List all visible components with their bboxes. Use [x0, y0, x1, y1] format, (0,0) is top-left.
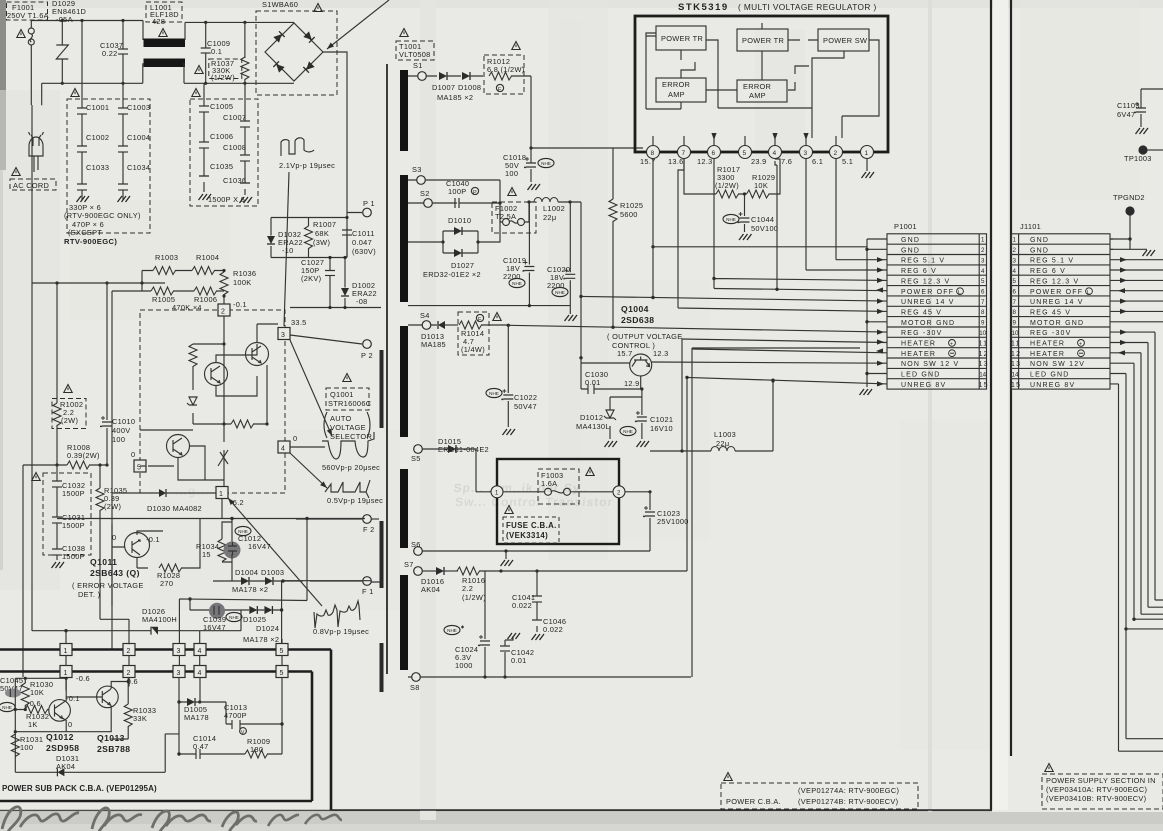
svg-text:MOTOR GND: MOTOR GND	[1030, 320, 1084, 327]
wire caps2 top	[204, 83, 245, 99]
IC STK5319 outline	[635, 16, 888, 152]
svg-text:Q1001: Q1001	[330, 390, 354, 399]
STK internal wiring mid	[718, 23, 812, 108]
waveform 0.5Vp-p	[325, 480, 370, 498]
svg-text:P1001: P1001	[894, 222, 917, 231]
ground cap bank1 left	[77, 196, 90, 202]
svg-text:25V1000: 25V1000	[657, 517, 689, 526]
wire gnd bus left of P1001	[867, 239, 887, 387]
wire J row4 out	[1110, 269, 1163, 271]
svg-text:D1012: D1012	[580, 413, 603, 422]
wire POWER OFF row6	[714, 161, 887, 291]
fuse F1001 symbol	[28, 28, 34, 34]
svg-text:LED GND: LED GND	[1030, 372, 1070, 379]
wire heater rail corner	[681, 337, 684, 339]
svg-text:REG 5.1 V: REG 5.1 V	[1030, 258, 1074, 265]
wires R100x rows	[112, 271, 224, 650]
bus1 box 1	[60, 644, 72, 656]
ground C1022	[503, 429, 516, 435]
svg-text:10: 10	[979, 330, 986, 337]
svg-text:400V: 400V	[112, 426, 130, 435]
svg-text:-0.1: -0.1	[233, 300, 247, 309]
diode D1024	[264, 606, 272, 614]
fuse CBA pin 1	[491, 486, 503, 498]
svg-text:6.1: 6.1	[812, 157, 823, 166]
bottom long line	[331, 809, 992, 811]
block ERROR AMP 1	[656, 78, 706, 102]
wire top node rail	[271, 218, 347, 258]
resistor R1002	[52, 399, 86, 429]
T1001 label box	[396, 41, 434, 60]
svg-text:D1004: D1004	[235, 568, 258, 577]
wire J row5 out	[1110, 279, 1163, 281]
diagonal pointer to bridge	[327, 0, 389, 49]
fuse CBA label	[503, 517, 559, 543]
svg-text:0.01: 0.01	[585, 378, 601, 387]
fuse F1001 box	[7, 2, 48, 20]
terminal S8	[412, 673, 421, 682]
svg-text:C1006: C1006	[210, 132, 233, 141]
pointer pin1 to waveform 0.8	[228, 498, 322, 606]
svg-text:0.5Vp-p 19μsec: 0.5Vp-p 19μsec	[327, 496, 383, 505]
waveform 0.8Vp-p	[314, 601, 360, 628]
svg-text:L: L	[1087, 290, 1090, 296]
svg-text:P 1: P 1	[363, 199, 375, 208]
wire bus1 entries from above	[66, 678, 282, 725]
wire F2 line	[57, 518, 365, 520]
svg-text:(RTV-900EGC ONLY): (RTV-900EGC ONLY)	[64, 211, 141, 220]
svg-text:TP1003: TP1003	[1124, 154, 1152, 163]
control block internal wires	[140, 316, 278, 498]
svg-text:7: 7	[981, 299, 985, 306]
ground C1044	[739, 234, 752, 240]
svg-text:4: 4	[981, 268, 985, 275]
svg-text:-10: -10	[282, 246, 294, 255]
wire REG12.3 row5	[714, 159, 887, 288]
ground pin1	[866, 159, 868, 171]
svg-text:4: 4	[198, 670, 202, 677]
diode D1005	[187, 698, 195, 706]
pin 7	[678, 146, 691, 159]
capacitor C1022	[486, 388, 502, 397]
resistor R1012	[484, 55, 524, 94]
wire J row14 wrap	[1110, 374, 1163, 739]
svg-text:F 2: F 2	[363, 525, 375, 534]
svg-text:FUSE C.B.A.: FUSE C.B.A.	[506, 521, 557, 530]
svg-text:(3W): (3W)	[313, 238, 330, 247]
svg-text:14: 14	[1012, 371, 1019, 378]
svg-text:2.1Vp-p 19μsec: 2.1Vp-p 19μsec	[279, 161, 335, 170]
svg-text:68K: 68K	[315, 229, 329, 238]
terminal P2	[363, 340, 372, 349]
svg-text:(VEP03410A: RTV-900EGC): (VEP03410A: RTV-900EGC)	[1046, 785, 1147, 794]
svg-text:9: 9	[1013, 320, 1017, 327]
ground C1020 rail	[565, 315, 578, 321]
svg-text:0.39(2W): 0.39(2W)	[67, 451, 100, 460]
waveform 2.1Vp-p	[281, 138, 314, 156]
svg-text:1000: 1000	[455, 661, 473, 670]
svg-text:C1035: C1035	[210, 162, 233, 171]
svg-text:REG 12.3 V: REG 12.3 V	[1030, 278, 1079, 285]
svg-text:3: 3	[177, 648, 181, 655]
svg-text:GND: GND	[1030, 237, 1049, 244]
transformer core line	[386, 64, 388, 674]
svg-text:L: L	[958, 290, 961, 296]
svg-text:(1/4W): (1/4W)	[461, 345, 485, 354]
svg-text:UNREG 8V: UNREG 8V	[901, 382, 946, 389]
svg-text:Q1011: Q1011	[90, 557, 117, 567]
adjustable resistor int	[218, 450, 228, 466]
svg-text:D1007: D1007	[432, 83, 455, 92]
terminal P1	[363, 208, 372, 217]
svg-text:F 1: F 1	[362, 587, 374, 596]
bus line 2	[0, 672, 312, 802]
board edge line left	[990, 0, 992, 810]
svg-text:4700P: 4700P	[224, 711, 247, 720]
test point TP1003	[1138, 145, 1147, 154]
pin box 3	[278, 328, 290, 340]
resistor R1016	[457, 567, 480, 575]
svg-text:C1010: C1010	[112, 417, 135, 426]
svg-text:8: 8	[981, 309, 985, 316]
wire Q1004 base node	[610, 376, 642, 397]
capacitor bank box 1	[67, 99, 150, 233]
ground C1018	[528, 184, 541, 190]
svg-text:10: 10	[1012, 330, 1019, 337]
svg-text:R1025: R1025	[620, 201, 643, 210]
wire J1101 row1-2 out	[1110, 239, 1113, 249]
wire J row6 out	[1110, 290, 1163, 292]
wire secondary lower rail	[408, 306, 570, 314]
AC plug	[29, 137, 43, 156]
transformer secondary winding bar S5/S6	[400, 469, 408, 548]
svg-text:C1003: C1003	[127, 103, 150, 112]
svg-text:3: 3	[804, 150, 808, 157]
wire Q1012 collector emitter	[15, 678, 66, 731]
bridge diode top-left	[273, 31, 284, 42]
svg-text:MA185 ×2: MA185 ×2	[437, 93, 473, 102]
svg-text:HEATER: HEATER	[1030, 341, 1065, 348]
svg-text:11: 11	[1011, 341, 1021, 348]
svg-text:0: 0	[131, 450, 135, 459]
svg-text:50V100: 50V100	[751, 224, 778, 233]
svg-text:(2KV): (2KV)	[301, 274, 321, 283]
svg-text:(1/2W): (1/2W)	[462, 593, 486, 602]
wire R1034 C1012 pair	[222, 519, 232, 582]
transformer secondary winding bar S4	[400, 326, 408, 437]
svg-text:2SB788: 2SB788	[97, 744, 130, 754]
svg-text:5.1: 5.1	[842, 157, 853, 166]
svg-text:( MULTI VOLTAGE REGULATOR: ( MULTI VOLTAGE REGULATOR )	[738, 2, 877, 12]
svg-text:POWER SUPPLY SECTION IN: POWER SUPPLY SECTION IN	[1046, 776, 1156, 785]
svg-text:S7: S7	[404, 560, 414, 569]
svg-text:POWER OFF: POWER OFF	[1030, 289, 1083, 296]
svg-text:D1025: D1025	[243, 615, 266, 624]
diode D1027	[454, 249, 462, 257]
svg-text:15: 15	[202, 550, 211, 559]
svg-text:2SB643 (Q): 2SB643 (Q)	[90, 568, 140, 578]
wire Q1011	[112, 524, 163, 606]
svg-text:REG -30V: REG -30V	[901, 330, 943, 337]
svg-text:10K: 10K	[30, 688, 44, 697]
svg-text:D1024: D1024	[256, 624, 279, 633]
svg-text:23.9: 23.9	[751, 157, 767, 166]
svg-text:NON SW 12V: NON SW 12V	[1030, 361, 1085, 368]
svg-text:5600: 5600	[620, 210, 638, 219]
capacitor C1044	[723, 214, 739, 223]
wire Q1004 collector	[581, 362, 630, 364]
svg-text:0: 0	[112, 533, 116, 542]
svg-text:L1003: L1003	[714, 430, 736, 439]
svg-text:S6: S6	[411, 540, 421, 549]
svg-text:Sp... ...m..ik der Sy..: Sp... ...m..ik der Sy..	[453, 481, 589, 495]
diode D1016	[436, 567, 444, 575]
zener int	[187, 397, 197, 405]
svg-text:S5: S5	[411, 454, 421, 463]
svg-text:22μ: 22μ	[543, 213, 556, 222]
svg-text:R1036: R1036	[233, 269, 256, 278]
pin 3	[800, 146, 813, 159]
wire S8 up right	[692, 348, 860, 677]
svg-text:REG 6 V: REG 6 V	[901, 268, 937, 275]
svg-text:100P: 100P	[448, 187, 466, 196]
bridge diamond	[265, 23, 323, 81]
block POWER SW	[818, 29, 869, 51]
terminal S7	[414, 567, 423, 576]
block ERROR AMP 2	[737, 80, 787, 102]
capacitor stack dashed box	[43, 473, 91, 555]
bridge diode bottom-right	[303, 61, 314, 72]
svg-text:T2.5A: T2.5A	[495, 212, 516, 221]
svg-text:-0.6: -0.6	[76, 674, 90, 683]
svg-text:C1008: C1008	[223, 143, 246, 152]
svg-text:C1005: C1005	[210, 102, 233, 111]
svg-text:( ERROR VOLTAGE: ( ERROR VOLTAGE	[72, 581, 144, 590]
svg-text:R1007: R1007	[313, 220, 336, 229]
resistor R1033	[124, 704, 132, 727]
svg-text:STR16006C: STR16006C	[328, 399, 372, 408]
svg-text:100: 100	[112, 435, 125, 444]
pin 2	[830, 146, 843, 159]
wire left rail	[32, 283, 165, 631]
svg-text:1: 1	[64, 670, 68, 677]
svg-text:428: 428	[152, 17, 165, 26]
svg-text:4: 4	[773, 150, 777, 157]
control block dashed box	[140, 310, 285, 493]
wire J row15 wrap	[1110, 384, 1163, 751]
svg-text:4: 4	[1013, 268, 1017, 275]
svg-text:1500P: 1500P	[62, 489, 85, 498]
svg-text:HEATER: HEATER	[901, 341, 936, 348]
wire AC cord leads	[34, 162, 38, 172]
svg-text:5: 5	[1013, 278, 1017, 285]
svg-text:0.8Vp-p 19μsec: 0.8Vp-p 19μsec	[313, 627, 369, 636]
wire Q1004 emitter to NON SW	[652, 362, 887, 363]
L1001 core bar upper	[144, 39, 186, 48]
svg-text:5: 5	[280, 670, 284, 677]
pointer pin4 to waveform	[290, 453, 327, 488]
resistor R1014	[458, 312, 489, 355]
svg-text:C1004: C1004	[127, 133, 150, 142]
fuse CBA pin 2	[613, 486, 625, 498]
svg-text:S1WBA60: S1WBA60	[262, 0, 298, 9]
svg-text:2: 2	[981, 247, 985, 254]
svg-text:100: 100	[505, 169, 518, 178]
wire J row9 out	[1110, 321, 1163, 323]
svg-text:7: 7	[682, 150, 686, 157]
svg-text:13.6: 13.6	[668, 157, 684, 166]
svg-text:C1011: C1011	[352, 229, 375, 238]
ground D1012	[605, 441, 618, 447]
svg-text:MOTOR GND: MOTOR GND	[901, 320, 955, 327]
svg-text:C1103: C1103	[1117, 101, 1140, 110]
transformer secondary winding bar S2/S3	[400, 175, 408, 302]
svg-text:SELECTOR: SELECTOR	[330, 432, 372, 441]
svg-text:REG 5.1 V: REG 5.1 V	[901, 258, 945, 265]
svg-text:-08: -08	[356, 297, 368, 306]
svg-text:(VEP03410B: RTV-900ECV): (VEP03410B: RTV-900ECV)	[1046, 794, 1146, 803]
svg-text:4: 4	[281, 446, 285, 453]
fuse CBA box	[497, 459, 619, 544]
svg-text:AC CORD: AC CORD	[13, 181, 49, 190]
transformer secondary winding bar S7/S8	[400, 575, 408, 670]
svg-text:(1/2W): (1/2W)	[715, 181, 739, 190]
wire REG5.1 row3	[836, 159, 887, 260]
svg-text:1K: 1K	[28, 720, 38, 729]
diode D1007	[439, 72, 447, 80]
svg-text:9: 9	[981, 320, 985, 327]
svg-text:POWER TR: POWER TR	[661, 34, 703, 43]
svg-text:2.2: 2.2	[462, 584, 473, 593]
wire bridge DC out right	[32, 52, 347, 283]
svg-text:GND: GND	[1030, 247, 1049, 254]
svg-text:5: 5	[743, 150, 747, 157]
STK internal wiring left	[646, 33, 718, 109]
svg-text:GND: GND	[901, 247, 920, 254]
svg-text:33K: 33K	[133, 714, 147, 723]
wire S1 rail right	[531, 147, 643, 149]
svg-text:33.5: 33.5	[291, 318, 307, 327]
wire AC top rail	[31, 21, 143, 106]
svg-text:REG 6 V: REG 6 V	[1030, 268, 1066, 275]
transistor Q1013	[97, 686, 119, 708]
svg-text:Q1013: Q1013	[97, 733, 125, 743]
svg-text:2: 2	[834, 150, 838, 157]
wire REG45 row8	[678, 159, 887, 311]
svg-text:560Vp-p 20μsec: 560Vp-p 20μsec	[322, 463, 380, 472]
svg-text:REG 45 V: REG 45 V	[901, 310, 942, 317]
svg-text:-0.1: -0.1	[146, 535, 160, 544]
block POWER TR 2	[737, 29, 788, 51]
diode D1013	[438, 321, 445, 329]
svg-text:ERROR: ERROR	[743, 82, 771, 91]
svg-text:12.3: 12.3	[697, 157, 713, 166]
svg-text:16V47: 16V47	[248, 542, 271, 551]
wire Q1013 base collector emitter	[66, 682, 128, 732]
ground C1103	[1136, 128, 1149, 134]
svg-text:REG -30V: REG -30V	[1030, 330, 1072, 337]
svg-text:ERD32-01E2 ×2: ERD32-01E2 ×2	[423, 270, 481, 279]
svg-text:(2W): (2W)	[61, 416, 78, 425]
diode D1025	[249, 606, 257, 614]
transistor Q1004	[630, 354, 652, 376]
svg-text:MA178 ×2: MA178 ×2	[243, 635, 279, 644]
fuse F1002	[492, 202, 536, 233]
bus1 box 3	[173, 644, 185, 656]
svg-text:UNREG 14 V: UNREG 14 V	[901, 299, 955, 306]
svg-text:1500P X 6: 1500P X 6	[208, 195, 245, 204]
svg-text:ERROR: ERROR	[662, 80, 690, 89]
pointer pin3 to waveform	[290, 340, 332, 436]
svg-text:15: 15	[979, 382, 989, 389]
svg-text:POWER C.B.A.: POWER C.B.A.	[726, 797, 781, 806]
ground TPGND2	[1143, 250, 1156, 256]
svg-text:R1004: R1004	[196, 253, 219, 262]
svg-text:C1033: C1033	[86, 163, 109, 172]
svg-text:POWER TR: POWER TR	[742, 36, 784, 45]
svg-text:12.3: 12.3	[653, 349, 669, 358]
diode D1004	[241, 577, 249, 585]
svg-text:D1008: D1008	[458, 83, 481, 92]
power supply section label box	[1045, 764, 1053, 772]
svg-text:270: 270	[160, 579, 173, 588]
wire filter connections	[42, 22, 294, 83]
bus1 box 5	[276, 644, 288, 656]
diode D1008	[462, 72, 470, 80]
STK internal wiring right	[808, 40, 879, 138]
wire UNREG8 row15	[501, 377, 887, 571]
svg-text:AMP: AMP	[668, 90, 685, 99]
svg-text:POWER OFF: POWER OFF	[901, 289, 954, 296]
handwriting	[2, 807, 79, 831]
ground cap bank1 right	[118, 196, 131, 202]
svg-text:MA185: MA185	[421, 340, 446, 349]
wire sub pack top row	[15, 677, 66, 679]
svg-text:1: 1	[865, 150, 869, 157]
resistor int horiz	[231, 420, 254, 428]
terminal F1	[363, 577, 372, 586]
svg-text:AMP: AMP	[749, 91, 766, 100]
ground cap bank2 right	[240, 197, 253, 203]
wire L1002 node down rail	[580, 202, 582, 358]
block POWER TR 1	[656, 26, 706, 50]
terminal F2	[363, 515, 372, 524]
svg-text:11: 11	[979, 341, 989, 348]
svg-text:RTV-900EGC): RTV-900EGC)	[64, 237, 117, 246]
terminal S6	[414, 547, 423, 556]
svg-text:3: 3	[1013, 257, 1017, 264]
capacitor C1012	[224, 542, 241, 559]
svg-text:470K ×4: 470K ×4	[172, 303, 202, 312]
svg-text:2: 2	[1013, 247, 1017, 254]
svg-text:S1: S1	[413, 61, 423, 70]
capacitor C1021	[620, 426, 636, 435]
svg-text:(VEK3314): (VEK3314)	[506, 531, 548, 540]
pin 5	[739, 146, 752, 159]
transistor Q1012	[49, 700, 71, 722]
pin box 1	[216, 487, 228, 499]
svg-text:VOLTAGE: VOLTAGE	[330, 423, 366, 432]
svg-text:S8: S8	[410, 683, 420, 692]
svg-text:P 2: P 2	[361, 351, 373, 360]
svg-text:S4: S4	[420, 311, 430, 320]
svg-text:NON SW 12 V: NON SW 12 V	[901, 361, 959, 368]
svg-text:6: 6	[712, 150, 716, 157]
svg-text:(VEP01274B: RTV-900ECV): (VEP01274B: RTV-900ECV)	[798, 797, 898, 806]
wire top rail to L1001	[62, 21, 143, 84]
svg-text:(EXCEPT: (EXCEPT	[68, 228, 102, 237]
diode D1003	[265, 577, 273, 585]
